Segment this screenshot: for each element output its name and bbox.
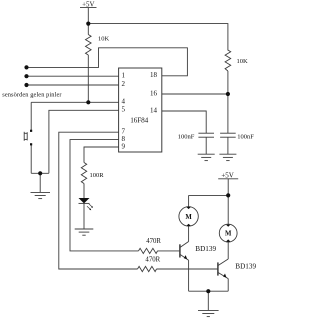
- svg-text:470R: 470R: [146, 238, 161, 245]
- svg-text:4: 4: [122, 98, 126, 106]
- svg-text:100nF: 100nF: [237, 134, 254, 141]
- svg-text:sensörden gelen pinler: sensörden gelen pinler: [2, 92, 62, 99]
- svg-text:5: 5: [122, 106, 126, 114]
- svg-text:100nF: 100nF: [178, 134, 195, 141]
- svg-text:470R: 470R: [145, 257, 160, 264]
- svg-text:18: 18: [150, 71, 158, 79]
- svg-text:1: 1: [122, 72, 126, 80]
- svg-text:14: 14: [150, 106, 158, 114]
- svg-text:10K: 10K: [237, 58, 249, 65]
- svg-text:M: M: [225, 231, 232, 238]
- svg-text:100R: 100R: [90, 172, 105, 179]
- svg-text:M: M: [185, 214, 192, 221]
- svg-text:+5V: +5V: [221, 171, 234, 179]
- svg-text:BD139: BD139: [195, 245, 216, 253]
- svg-text:10K: 10K: [98, 35, 110, 42]
- svg-text:2: 2: [122, 80, 126, 88]
- svg-text:+5V: +5V: [82, 2, 94, 9]
- svg-text:16: 16: [150, 89, 158, 97]
- svg-text:9: 9: [122, 142, 126, 150]
- svg-text:BD139: BD139: [235, 263, 256, 271]
- svg-text:16F84: 16F84: [130, 117, 148, 125]
